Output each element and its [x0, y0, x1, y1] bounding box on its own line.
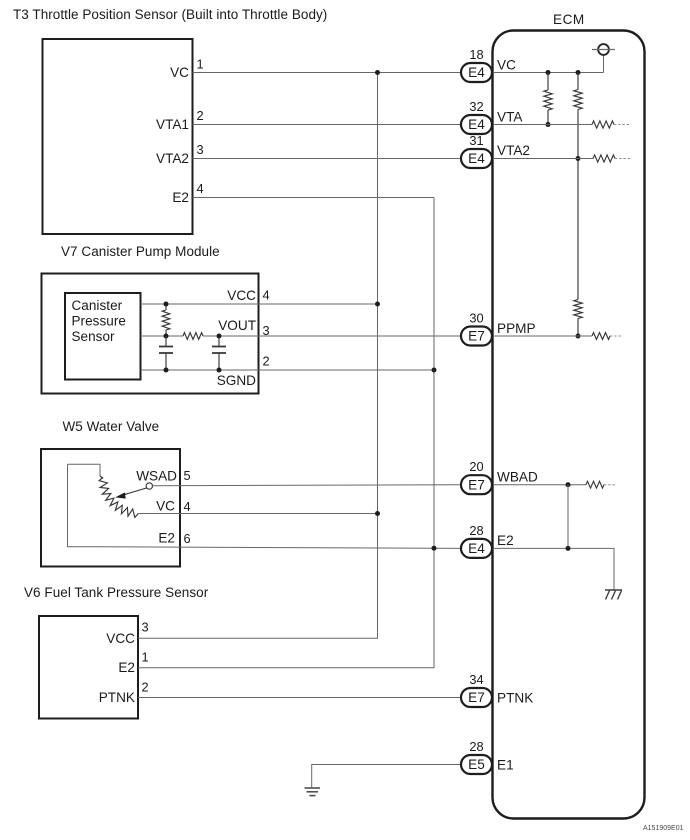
svg-text:VC: VC: [156, 499, 175, 514]
svg-text:VTA2: VTA2: [497, 143, 530, 158]
svg-text:A151909E01: A151909E01: [643, 825, 684, 832]
wire V7 VOUT: resistor to ECM connector E7-30: [203, 335, 461, 337]
svg-text:V7 Canister Pump Module: V7 Canister Pump Module: [61, 244, 220, 259]
svg-text:Sensor: Sensor: [72, 329, 116, 344]
connector E7 pin 34 (PTNK): [461, 672, 533, 707]
wire V7 VCC: sensor to VC bus: [141, 303, 378, 305]
svg-text:VC: VC: [497, 58, 516, 73]
wire W5 internal top path: [68, 464, 101, 476]
power supply symbol (circle): [592, 44, 615, 72]
junction node SGND at C1: [164, 368, 169, 373]
junction node W5 VC / VC bus: [375, 511, 380, 516]
capacitor C1 (VOUT to SGND): [159, 336, 173, 370]
svg-text:1: 1: [197, 57, 204, 72]
svg-text:SGND: SGND: [217, 373, 256, 388]
junction node VCC at pull-up resistor: [164, 302, 169, 307]
connector E7 pin 30 (PPMP): [461, 311, 536, 346]
svg-text:4: 4: [263, 288, 270, 303]
wire E2 bus vertical: [433, 198, 435, 668]
wire VTA2 inside ECM: [492, 158, 594, 160]
wire VTA2: T3 pin 3 to ECM connector E4-31: [193, 158, 462, 160]
svg-text:6: 6: [184, 531, 191, 546]
resistor R6 in PPMP line: [592, 333, 610, 340]
connector E5 pin 28 (E1): [461, 739, 514, 774]
svg-text:T3 Throttle Position Sensor (B: T3 Throttle Position Sensor (Built into …: [13, 7, 327, 22]
svg-text:E1: E1: [497, 757, 514, 772]
svg-text:WBAD: WBAD: [497, 470, 538, 485]
svg-text:E2: E2: [118, 660, 135, 675]
svg-text:VCC: VCC: [227, 288, 256, 303]
svg-text:PTNK: PTNK: [497, 690, 533, 705]
svg-text:VTA1: VTA1: [156, 117, 189, 132]
connector E7 pin 20 (WBAD): [461, 459, 538, 494]
junction node VOUT at pull-up resistor: [164, 334, 169, 339]
junction node VC / R1: [546, 70, 551, 75]
svg-text:31: 31: [469, 133, 483, 148]
junction node SGND at C2: [217, 368, 222, 373]
svg-text:E7: E7: [468, 477, 485, 492]
svg-text:E2: E2: [172, 190, 189, 205]
wire PPMP inside ECM: [492, 335, 593, 337]
connector E4 pin 18 (VC): [461, 47, 516, 82]
wire W5 E2 to ECM connector E4-28: [100, 547, 461, 549]
svg-text:E4: E4: [468, 117, 485, 132]
wire E1 from ECM connector E5-28 to ground: [312, 765, 461, 789]
svg-text:VTA: VTA: [497, 110, 523, 125]
svg-text:W5 Water Valve: W5 Water Valve: [63, 419, 160, 434]
ground symbol (earth) for E1: [305, 788, 321, 796]
resistor R1 (VC to VTA): [544, 73, 552, 125]
svg-text:E4: E4: [468, 541, 485, 556]
resistor V7 pull-up (VCC to VOUT): [165, 304, 167, 310]
svg-text:34: 34: [469, 672, 483, 687]
connector E4 pin 32 (VTA): [461, 99, 523, 134]
svg-text:WSAD: WSAD: [136, 469, 177, 484]
svg-text:Pressure: Pressure: [72, 314, 126, 329]
wiper arrow: [122, 488, 147, 495]
wire V6 VCC to VC bus: [138, 637, 378, 639]
wire V6 E2 to E2 bus: [138, 667, 435, 669]
dashed continuation of VTA line: [614, 124, 631, 126]
dashed continuation of VTA2 line: [615, 158, 631, 160]
svg-text:PTNK: PTNK: [99, 690, 135, 705]
svg-text:2: 2: [142, 680, 149, 695]
junction node VTA2 / R2 branch: [576, 156, 581, 161]
svg-text:E4: E4: [468, 65, 485, 80]
dashed continuation of PPMP line: [610, 335, 623, 337]
svg-text:E7: E7: [468, 329, 485, 344]
inner box Canister Pressure Sensor: [65, 293, 141, 380]
wire VC inside ECM: [492, 72, 604, 74]
resistor in VOUT line (V7 internal): [183, 333, 203, 340]
ground symbol (chassis) inside ECM: [605, 590, 622, 600]
wire VTA inside ECM: [492, 124, 593, 126]
label Canister Pressure Sensor: [72, 298, 126, 344]
sensor box V6: [39, 616, 138, 719]
svg-text:E4: E4: [468, 151, 485, 166]
svg-text:3: 3: [197, 142, 204, 157]
junction node WBAD / E2 link: [566, 482, 571, 487]
junction node VTA / R1: [546, 122, 551, 127]
svg-text:VCC: VCC: [106, 631, 135, 646]
svg-text:28: 28: [469, 739, 483, 754]
wire V7 VOUT left segment: [141, 335, 184, 337]
svg-text:5: 5: [184, 468, 191, 483]
svg-text:30: 30: [469, 311, 483, 326]
wire V6 PTNK to ECM connector E7-34: [138, 697, 461, 699]
sensor box T3: [43, 39, 193, 234]
svg-text:32: 32: [469, 99, 483, 114]
ECM body outline: [493, 31, 645, 819]
junction node W5 E2 / E2 bus: [432, 546, 437, 551]
svg-text:V6 Fuel Tank Pressure Sensor: V6 Fuel Tank Pressure Sensor: [24, 585, 209, 600]
junction node VOUT at C2: [217, 334, 222, 339]
resistor R7 in WBAD line: [586, 481, 604, 488]
svg-text:20: 20: [469, 459, 483, 474]
svg-text:2: 2: [197, 108, 204, 123]
wire W5 internal left path to E2: [68, 464, 101, 547]
wire WSAD: wiper to ECM connector E7-20: [153, 485, 462, 486]
svg-text:PPMP: PPMP: [497, 321, 536, 336]
resistor R4 in VTA line: [592, 121, 614, 128]
wire E2: T3 pin 4 to E2 bus: [193, 197, 435, 199]
wire V7 SGND: sensor to E2 bus: [141, 369, 435, 371]
junction node PPMP / R3: [576, 334, 581, 339]
resistor R3 (branch to PPMP): [574, 300, 582, 337]
dashed continuation of WBAD line: [604, 484, 616, 486]
svg-text:2: 2: [263, 354, 270, 369]
svg-text:4: 4: [184, 499, 191, 514]
junction node SGND / E2 bus: [432, 368, 437, 373]
resistor R5 in VTA2 line: [593, 155, 615, 162]
capacitor C2 (VOUT to SGND): [212, 336, 226, 370]
svg-text:E5: E5: [468, 757, 485, 772]
svg-text:4: 4: [197, 181, 204, 196]
connector E4 pin 28 (E2): [461, 523, 514, 558]
svg-text:VTA2: VTA2: [156, 151, 189, 166]
svg-text:ECM: ECM: [553, 12, 585, 27]
svg-text:Canister: Canister: [72, 298, 123, 313]
junction node VC / R2: [576, 70, 581, 75]
wire VC: T3 pin 1 to ECM connector E4-18: [193, 72, 462, 74]
valve box W5: [41, 449, 180, 567]
resistor R2 (VC to PPMP branch): [574, 73, 582, 300]
svg-text:28: 28: [469, 523, 483, 538]
wire link WBAD to E2 inside ECM: [567, 485, 569, 549]
module box V7: [42, 274, 259, 394]
svg-text:VOUT: VOUT: [218, 318, 256, 333]
connector E4 pin 31 (VTA2): [461, 133, 530, 168]
svg-text:VC: VC: [170, 65, 189, 80]
wiper terminal circle WSAD: [146, 483, 152, 489]
junction node VCC / VC bus: [375, 302, 380, 307]
svg-text:1: 1: [142, 650, 149, 665]
junction node VC bus / VC wire: [375, 70, 380, 75]
svg-text:18: 18: [469, 47, 483, 62]
svg-text:E7: E7: [468, 690, 485, 705]
wire W5 VC: winding end to VC bus: [138, 513, 378, 515]
potentiometer winding W5: [100, 476, 103, 479]
junction node E2 / link: [566, 546, 571, 551]
wire VTA1: T3 pin 2 to ECM connector E4-32: [193, 124, 462, 126]
wire VC bus vertical: [377, 73, 379, 639]
wire E2 inside ECM: [492, 548, 615, 590]
svg-text:E2: E2: [497, 533, 514, 548]
svg-text:E2: E2: [158, 531, 175, 546]
wire WBAD inside ECM: [492, 484, 587, 486]
svg-text:3: 3: [142, 620, 149, 635]
